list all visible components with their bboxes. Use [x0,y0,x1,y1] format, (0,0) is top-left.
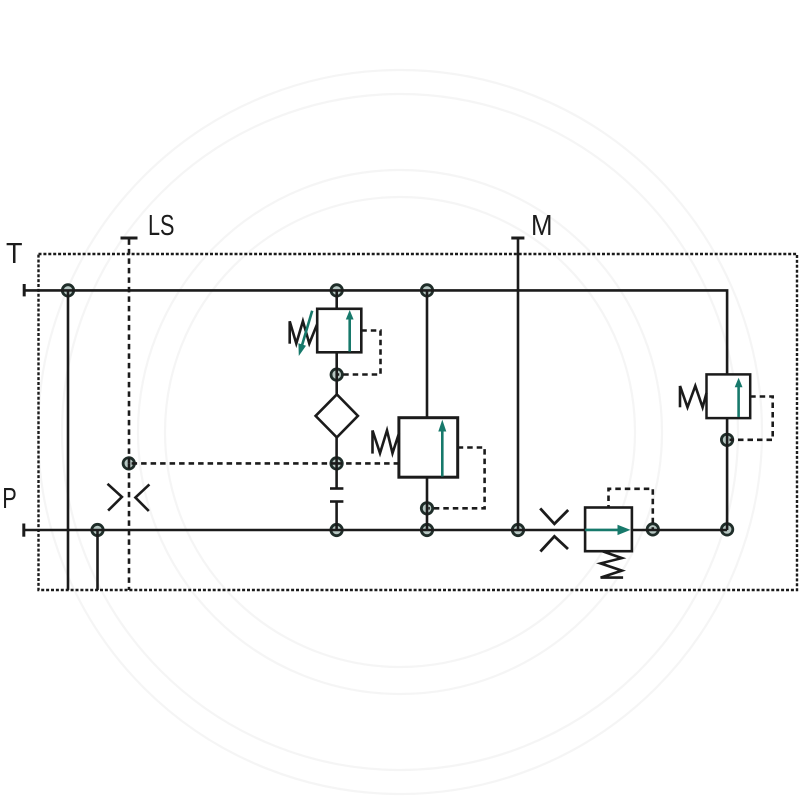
svg-text:M: M [531,210,553,242]
svg-text:P: P [2,483,17,515]
svg-text:LS: LS [148,210,175,242]
svg-text:T: T [6,238,23,270]
